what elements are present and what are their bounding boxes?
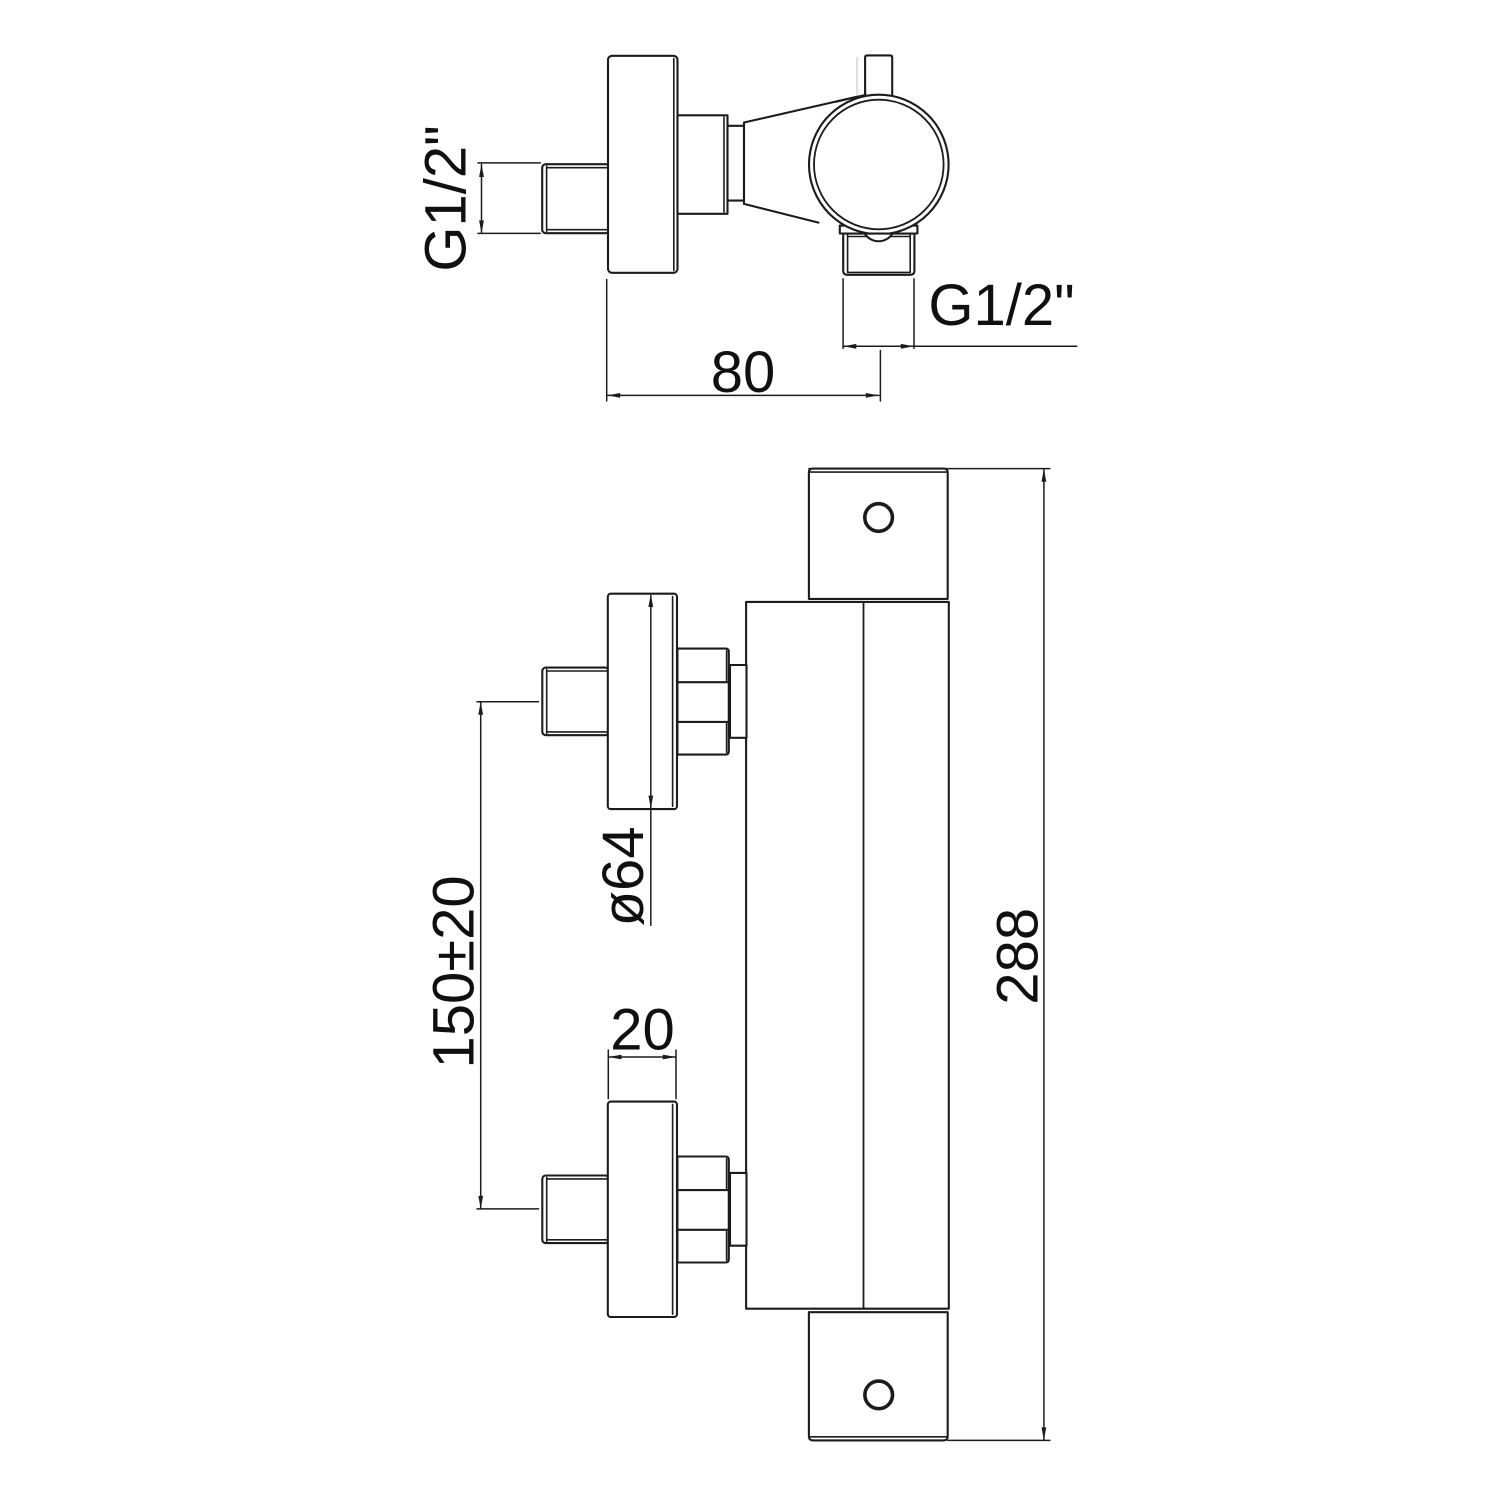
- wire: 288 extension line bottom: [948, 1439, 1050, 1441]
- connector upper: [730, 665, 747, 738]
- svg-text:288: 288: [986, 908, 1051, 1005]
- svg-text:ø64: ø64: [591, 826, 656, 926]
- hex nut upper: [677, 649, 728, 755]
- svg-text:20: 20: [610, 997, 675, 1062]
- wire: 150+-20 extension line bottom: [477, 1208, 539, 1210]
- small step (top view): [728, 126, 745, 201]
- wire: 20 extension line right: [675, 1050, 677, 1099]
- wire: 150+-20 extension line top: [477, 701, 539, 703]
- wire: G1/2 bottom extension line right: [913, 279, 915, 348]
- wire: 80 extension line right (outlet axis): [879, 351, 881, 401]
- wire: cone top edge over knob to stem base: [836, 95, 865, 102]
- outlet flange strip (top view): [840, 226, 918, 234]
- wire: G1/2 top dimension line: [481, 164, 483, 233]
- top cap screw hole: [865, 504, 893, 532]
- wire: G1/2 bottom dimension + leader line: [843, 345, 1077, 347]
- bottom mounting cap: [809, 1312, 948, 1440]
- top stub pipe (top view): [857, 55, 892, 100]
- main body column: [746, 602, 949, 1309]
- wire: G1/2 bottom extension line left: [842, 279, 844, 348]
- connector lower: [730, 1173, 747, 1246]
- control knob outer circle (top view): [809, 95, 949, 235]
- wall flange (top view): [608, 56, 678, 273]
- wire: 80 extension line left: [606, 280, 608, 401]
- svg-text:G1/2": G1/2": [928, 273, 1074, 338]
- svg-text:G1/2": G1/2": [414, 125, 479, 271]
- wire: 288 extension line top: [809, 468, 1050, 470]
- control knob inner circle: [814, 100, 944, 230]
- adapter cylinder (top view): [678, 115, 728, 214]
- flow disc upper: [608, 594, 677, 809]
- flow disc lower: [608, 1102, 677, 1317]
- wire: 80 dimension line: [607, 394, 879, 396]
- wire: 20 extension line left: [607, 1050, 609, 1099]
- wire: 150+-20 dimension line: [480, 702, 482, 1209]
- wire: dia64 dimension line: [650, 596, 652, 926]
- inlet stub upper: [542, 668, 609, 736]
- outlet ball arc (top view): [865, 234, 893, 241]
- hex nut lower: [677, 1157, 728, 1263]
- outlet nut (top view): [843, 234, 914, 275]
- inlet stub lower: [542, 1176, 609, 1244]
- wire: stem left edge to junction: [864, 90, 866, 95]
- cone body (top view): [744, 97, 858, 223]
- wire: 20 dimension line: [608, 1056, 676, 1058]
- wire: G1/2 top extension line upper: [478, 162, 540, 164]
- wire: G1/2 top extension line lower: [478, 232, 540, 234]
- inlet stub (top view, left): [542, 164, 609, 233]
- svg-text:150±20: 150±20: [421, 875, 486, 1068]
- wire: 288 dimension line: [1043, 469, 1045, 1440]
- top mounting cap: [809, 469, 948, 599]
- svg-text:80: 80: [711, 340, 776, 405]
- bottom cap screw hole: [865, 1381, 893, 1409]
